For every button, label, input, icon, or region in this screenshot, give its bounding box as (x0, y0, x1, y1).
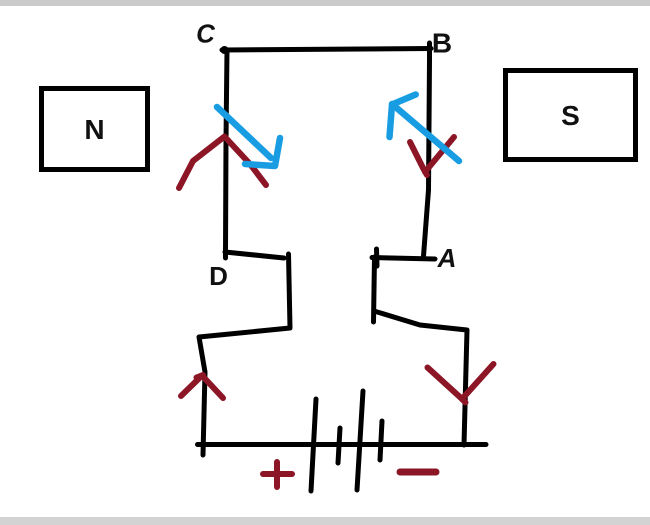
svg-text:N: N (84, 114, 104, 145)
svg-text:B: B (432, 28, 452, 59)
svg-text:A: A (437, 243, 457, 273)
svg-text:D: D (209, 261, 228, 291)
svg-text:C: C (196, 19, 216, 49)
svg-text:S: S (561, 100, 580, 131)
